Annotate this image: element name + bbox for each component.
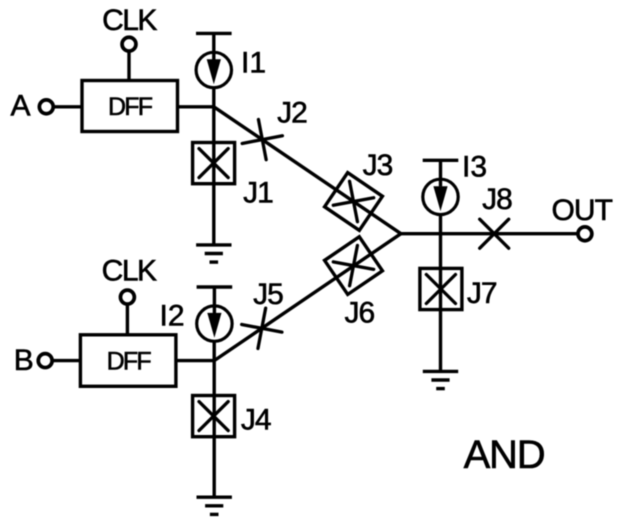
svg-text:DFF: DFF [108,93,153,121]
wire B terminal to DFF U2 [52,359,81,362]
svg-text:A: A [10,90,30,123]
wire node A down through J1 to ground [212,87,215,245]
wire node B down through J4 to ground [212,341,215,498]
svg-text:J4: J4 [241,404,271,437]
svg-text:J1: J1 [243,176,273,209]
wire DFF U2 output to node B [176,359,214,362]
josephson junction J6 [325,237,383,295]
DFF U1 box [82,81,178,132]
current source I1 [196,33,232,87]
svg-text:OUT: OUT [551,194,612,227]
josephson junction J5 [242,308,282,348]
svg-text:CLK: CLK [102,4,157,37]
ground (below J1) [196,245,231,262]
svg-text:AND: AND [464,433,545,477]
wire DFF U1 output to node A [178,105,214,108]
svg-text:CLK: CLK [102,255,157,288]
input terminal A [39,100,53,114]
DFF U2 box [80,335,175,387]
terminal CLK (top) [122,37,136,51]
output terminal OUT [578,227,592,241]
wire CLK terminal to DFF U1 [127,51,130,81]
svg-text:DFF: DFF [107,347,152,375]
josephson junction J3 [325,173,383,231]
svg-text:J2: J2 [277,97,307,130]
current source I2 [197,287,233,341]
svg-text:I2: I2 [159,300,184,333]
josephson junction J2 [242,119,282,159]
josephson junction J7 [420,268,462,309]
wire node A to merge node (top diagonal) [214,107,401,234]
svg-text:J3: J3 [363,149,393,182]
wire CLK terminal to DFF U2 [126,304,129,335]
wire node B to merge node (bottom diagonal) [214,234,401,361]
ground (below J7) [423,371,458,388]
wire I3 down through J7 to ground [439,214,442,372]
input terminal B [38,354,52,368]
josephson junction J8 [480,219,509,248]
svg-text:J8: J8 [482,183,512,216]
ground (below J4) [197,497,232,514]
svg-text:J6: J6 [344,297,374,330]
josephson junction J4 [193,396,235,437]
svg-text:I1: I1 [241,47,266,80]
current source I3 [423,160,459,214]
terminal CLK (bottom) [120,290,134,304]
svg-text:J5: J5 [253,278,283,311]
svg-text:B: B [14,344,34,377]
wire merge node to OUT terminal [401,232,579,235]
wire A terminal to DFF U1 [53,105,82,108]
svg-text:J7: J7 [467,277,497,310]
svg-text:I3: I3 [462,151,487,184]
josephson junction J1 [193,143,235,184]
